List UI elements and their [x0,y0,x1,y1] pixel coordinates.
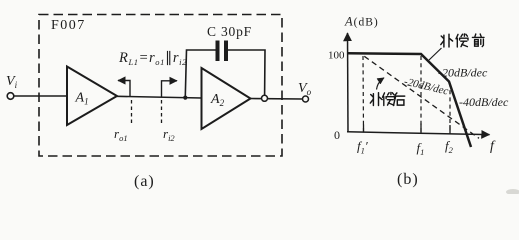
svg-text:F007: F007 [51,18,86,33]
svg-text:(b): (b) [397,171,419,188]
svg-text:-20dB/dec: -20dB/dec [438,66,488,80]
svg-text:100: 100 [328,50,345,62]
svg-text:RL1=ro1∥ri2: RL1=ro1∥ri2 [118,50,187,67]
svg-text:(a): (a) [134,173,155,190]
svg-text:-40dB/dec: -40dB/dec [459,95,509,109]
svg-text:0: 0 [334,128,340,142]
svg-text:C 30pF: C 30pF [207,24,252,39]
svg-text:A(dB): A(dB) [344,15,379,29]
